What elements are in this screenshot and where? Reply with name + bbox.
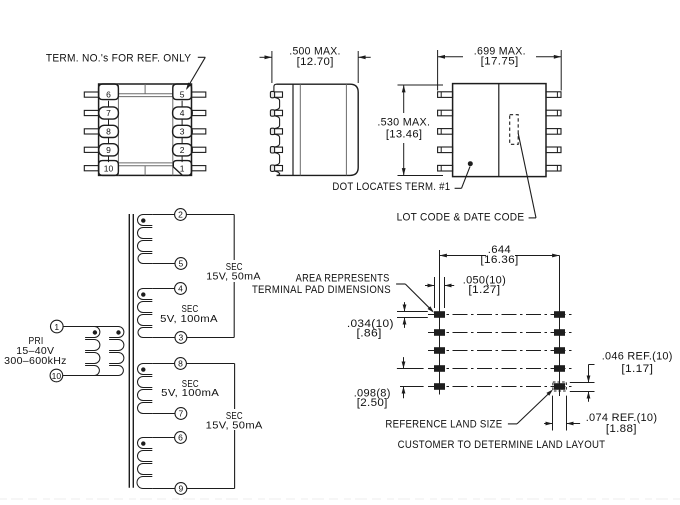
package inner pad-column line right	[172, 84, 174, 175]
svg-text:[1.27]: [1.27]	[468, 284, 500, 296]
dimension .500 MAX. extension lines	[272, 51, 358, 83]
pad-to-pad center links right	[181, 101, 183, 162]
svg-text:TERMINAL PAD DIMENSIONS: TERMINAL PAD DIMENSIONS	[252, 284, 391, 296]
svg-text:5: 5	[179, 259, 184, 269]
svg-text:6: 6	[178, 433, 183, 443]
terminal 3 circle	[175, 332, 187, 344]
svg-text:1: 1	[180, 163, 185, 173]
svg-text:15V, 50mA: 15V, 50mA	[206, 270, 261, 282]
secondary winding S2 polarity dot	[141, 292, 145, 296]
land pattern right column centerline	[559, 256, 561, 397]
wire terminal 1 to primary top	[63, 326, 118, 328]
package inner top double line	[118, 94, 172, 97]
terminal 9 circle	[175, 483, 187, 495]
svg-text:CUSTOMER TO DETERMINE LAND LAY: CUSTOMER TO DETERMINE LAND LAYOUT	[398, 439, 606, 451]
dimension .699 MAX. extension lines	[438, 50, 562, 91]
svg-text:[13.46]: [13.46]	[386, 129, 423, 141]
terminal 1 circle	[51, 320, 64, 333]
svg-text:9: 9	[106, 145, 111, 155]
svg-text:15V, 50mA: 15V, 50mA	[206, 419, 263, 431]
side view body outline	[277, 84, 359, 175]
terminal 2 circle	[175, 209, 187, 221]
pad-to-pad center links left	[108, 101, 110, 162]
dimension .530 MAX. arrows	[402, 85, 406, 176]
svg-text:4: 4	[178, 284, 183, 294]
label SEC 5V 100mA winding S2	[160, 303, 218, 325]
svg-text:4: 4	[180, 108, 185, 118]
svg-text:5V, 100mA: 5V, 100mA	[161, 387, 219, 399]
svg-text:REFERENCE LAND SIZE: REFERENCE LAND SIZE	[385, 419, 502, 431]
land pattern row centerlines dash-dot	[428, 315, 575, 387]
svg-text:[2.50]: [2.50]	[357, 397, 388, 409]
wire terminal 8 to right bus	[186, 363, 234, 365]
dimension .530 MAX. extension lines	[398, 85, 444, 176]
lead stubs left (pins 6-10)	[84, 92, 98, 171]
bottom view center parting line	[498, 84, 500, 177]
label AREA REPRESENTS TERMINAL PAD DIMENSIONS	[252, 273, 391, 296]
bottom view leads right	[546, 92, 561, 171]
svg-text:7: 7	[106, 108, 111, 118]
svg-text:TERM. NO.'s FOR REF. ONLY: TERM. NO.'s FOR REF. ONLY	[46, 52, 192, 64]
dimension .050 extension lines	[435, 277, 445, 308]
side view housing divider line	[292, 84, 294, 175]
dimension .098 extension lines	[397, 369, 424, 387]
terminal 1 locator dot	[468, 161, 473, 166]
faint page edge marks	[0, 498, 680, 500]
terminal 6 circle	[175, 432, 187, 444]
dimension .046 extension lines	[570, 383, 595, 392]
package top center mold line	[144, 84, 146, 94]
wire terminal 2 to right bus	[186, 214, 234, 216]
terminal 10 circle	[50, 369, 63, 382]
side view pin housing waves	[274, 84, 280, 175]
svg-text:[16.36]: [16.36]	[480, 254, 518, 266]
terminal pad 4	[173, 107, 193, 119]
secondary winding S4 polarity dot	[141, 441, 145, 445]
svg-text:8: 8	[178, 359, 183, 369]
svg-text:[1.88]: [1.88]	[606, 423, 637, 435]
svg-text:[12.70]: [12.70]	[297, 56, 334, 68]
primary winding half B polarity dot	[116, 330, 120, 334]
svg-text:5V, 100mA: 5V, 100mA	[160, 313, 218, 325]
label SEC 15V 50mA winding S1	[202, 260, 265, 282]
svg-text:8: 8	[106, 127, 111, 137]
leader from area label to pad	[396, 284, 434, 313]
svg-text:[17.75]: [17.75]	[481, 55, 519, 67]
label SEC 5V 100mA winding S3	[161, 378, 219, 399]
secondary winding S1	[138, 215, 153, 264]
secondary winding S2	[138, 289, 153, 338]
svg-text:DOT LOCATES TERM. #1: DOT LOCATES TERM. #1	[332, 181, 450, 193]
leader from reference land label to reference pad	[508, 390, 553, 424]
dimension .644 line and arrows	[440, 254, 560, 258]
wire winding S3 bottom to terminal 7	[152, 413, 175, 415]
terminal pad 2	[173, 144, 193, 156]
svg-text:10: 10	[52, 371, 62, 381]
terminal pads left column	[434, 311, 445, 390]
side view gull-wing leads	[270, 91, 282, 171]
dimension .050 arrows	[425, 284, 454, 288]
svg-text:3: 3	[180, 127, 185, 137]
lot code date code dashed window	[510, 115, 519, 145]
dimension .074 extension lines	[553, 396, 567, 431]
svg-text:[1.17]: [1.17]	[621, 363, 653, 375]
terminal pad 5	[173, 84, 192, 100]
pad numbers 6-10	[104, 90, 114, 174]
svg-text:3: 3	[179, 333, 184, 343]
wire winding S2 top to terminal 4	[152, 288, 174, 290]
primary winding half A polarity dot	[93, 330, 97, 334]
wire terminal 10 to primary bottom	[63, 375, 119, 377]
dimension .034 arrows	[403, 302, 407, 328]
svg-text:2: 2	[178, 210, 183, 220]
bottom view body outline	[453, 84, 546, 177]
svg-text:300–600kHz: 300–600kHz	[4, 355, 67, 367]
svg-text:.530 MAX.: .530 MAX.	[377, 116, 430, 128]
svg-text:LOT CODE & DATE CODE: LOT CODE & DATE CODE	[397, 212, 525, 224]
svg-text:.046 REF.(10): .046 REF.(10)	[602, 350, 673, 362]
transformer core	[129, 214, 133, 488]
secondary winding S3 polarity dot	[141, 367, 145, 371]
wire winding S4 bottom to terminal 9	[152, 488, 175, 490]
package body outline (top view)	[99, 84, 192, 175]
terminal pad 10	[99, 161, 119, 176]
primary winding half A	[85, 327, 100, 376]
right bus terminal 2 to terminal 3	[233, 215, 235, 338]
wire terminal 9 to right bus	[187, 488, 235, 490]
reference land pad	[554, 383, 565, 390]
lead stubs right (pins 5-1)	[192, 92, 206, 171]
dimension .046 arrows	[587, 365, 595, 402]
secondary winding S4	[137, 438, 152, 489]
svg-text:7: 7	[179, 409, 184, 419]
bottom view leads left	[438, 92, 453, 171]
terminal pad 6	[99, 84, 119, 100]
terminal pad 3	[173, 125, 193, 137]
dimension .500 MAX. arrows	[260, 55, 371, 59]
package inner pad-column line left	[117, 84, 119, 175]
right bus terminal 8 to terminal 9	[234, 364, 236, 489]
land pattern left column centerline	[439, 250, 441, 395]
secondary winding S1 polarity dot	[141, 218, 145, 222]
terminal pads right column	[554, 311, 565, 372]
leader from dot label to locator dot	[455, 167, 470, 189]
label PRI 15-40V 300-600kHz	[4, 335, 67, 367]
side view body inner line left	[299, 84, 301, 175]
terminal 7 circle	[175, 408, 187, 420]
wire winding S4 top to terminal 6	[152, 437, 174, 439]
svg-text:2: 2	[180, 145, 185, 155]
terminal 5 circle	[175, 258, 187, 270]
dimension .699 MAX. arrows	[438, 55, 562, 59]
package inner bottom double line	[118, 163, 172, 166]
dimension .074 arrows	[544, 422, 580, 426]
svg-text:9: 9	[179, 484, 184, 494]
svg-text:5: 5	[180, 90, 185, 100]
wire terminal 3 to right bus	[187, 337, 234, 339]
svg-text:6: 6	[106, 90, 111, 100]
side view body inner line right	[345, 84, 347, 175]
reference land size outline	[553, 382, 566, 391]
wire winding S1 bottom to terminal 5	[152, 263, 175, 265]
package bottom center mold line	[144, 166, 146, 176]
dimension .034 extension lines	[397, 312, 428, 318]
leader from lot code label to dashed window	[518, 133, 536, 218]
terminal pad 1 with chamfer	[173, 161, 191, 176]
leader arrow to terminal 5	[186, 57, 205, 90]
svg-text:AREA REPRESENTS: AREA REPRESENTS	[296, 273, 390, 285]
terminal 8 circle	[175, 358, 187, 370]
terminal pad 9	[99, 144, 119, 156]
secondary winding S3	[138, 364, 153, 414]
svg-text:1: 1	[54, 322, 59, 332]
label SEC 15V 50mA winding S4	[203, 409, 266, 431]
terminal 4 circle	[175, 283, 187, 295]
svg-text:[.86]: [.86]	[357, 327, 382, 339]
primary winding half B	[109, 327, 124, 376]
wire winding S1 top to terminal 2	[152, 214, 174, 216]
dimension .098 arrows	[402, 357, 406, 398]
terminal pad 8	[99, 125, 119, 137]
pad numbers 5-1	[180, 90, 185, 174]
svg-text:10: 10	[104, 163, 114, 173]
terminal pad 7	[99, 107, 119, 119]
wire winding S3 top to terminal 8	[152, 363, 174, 365]
wire winding S2 bottom to terminal 3	[152, 337, 175, 339]
